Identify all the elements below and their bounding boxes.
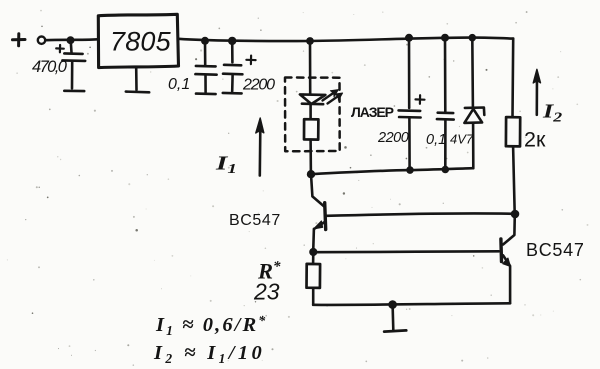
capacitor C1 470,0 xyxy=(56,40,85,91)
svg-text:0,1: 0,1 xyxy=(168,76,190,93)
regulator U1 7805 box xyxy=(98,14,178,67)
resistor R2 2k lead from rail xyxy=(511,39,514,117)
junction dot node B xyxy=(511,210,520,219)
svg-text:23: 23 xyxy=(253,279,280,305)
current arrow I2 xyxy=(533,69,540,115)
junction dot C1 xyxy=(67,36,75,44)
wire Q1 base to node B xyxy=(327,213,514,215)
junction dot C5 xyxy=(441,34,449,42)
junction dot ground xyxy=(388,300,397,309)
capacitor C5 0,1 xyxy=(437,38,454,170)
transistor Q1 BC547 collector lead xyxy=(311,174,324,206)
junction dot D2 xyxy=(469,34,477,42)
resistor R2 2k body xyxy=(506,117,520,146)
svg-text:2к: 2к xyxy=(524,128,546,152)
wire input to regulator xyxy=(46,38,98,42)
svg-text:2200: 2200 xyxy=(377,130,409,146)
svg-text:0,1: 0,1 xyxy=(426,132,446,148)
ground pin of U1 xyxy=(135,68,138,90)
junction dot C4 xyxy=(405,34,413,42)
node + input terminal plus sign xyxy=(13,34,26,46)
current arrow I1 xyxy=(256,118,264,176)
svg-text:2200: 2200 xyxy=(242,77,275,94)
junction dot C3 xyxy=(228,37,236,45)
transistor Q1 emitter with arrow xyxy=(315,222,325,228)
svg-text:7805: 7805 xyxy=(110,27,172,57)
laser diode D1 xyxy=(300,90,343,120)
transistor Q2 collector lead xyxy=(503,214,515,245)
transistor Q2 emitter with arrow xyxy=(503,255,510,265)
terminal circle xyxy=(38,37,45,44)
resistor R1 body R* xyxy=(312,252,315,264)
junction dot laser branch xyxy=(306,37,314,45)
wire main +5V rail xyxy=(179,38,514,42)
junction dot C5 bottom xyxy=(442,166,450,174)
transistor Q1 base bar xyxy=(325,203,326,230)
wire bottom rail xyxy=(313,303,510,305)
junction dot C4 bottom xyxy=(406,166,414,174)
laser module dashed box xyxy=(285,78,340,152)
svg-text:BC547: BC547 xyxy=(229,212,281,229)
wire rail to laser xyxy=(309,41,312,94)
resistor R2 lead to node xyxy=(513,147,515,214)
wire mid rail (laser cathode bus) xyxy=(311,168,473,174)
wire laser module to node xyxy=(309,140,312,174)
capacitor C2 0,1 xyxy=(195,41,216,94)
svg-text:4V7: 4V7 xyxy=(450,132,474,147)
svg-text:ЛАЗЕР: ЛАЗЕР xyxy=(351,104,394,120)
junction dot Q1 emitter node xyxy=(309,248,317,256)
svg-text:BC547: BC547 xyxy=(526,240,585,260)
ground xyxy=(391,305,394,330)
capacitor C4 2200 xyxy=(399,38,425,170)
zener diode D2 4V7 xyxy=(464,38,484,169)
capacitor C3 2200 xyxy=(223,41,256,93)
junction dot C2 xyxy=(201,37,209,45)
transistor Q2 base bar xyxy=(499,239,503,262)
junction dot laser bottom xyxy=(307,170,315,178)
svg-text:470,0: 470,0 xyxy=(32,58,68,76)
monitor photodiode box xyxy=(304,119,318,139)
wire Q1 emitter to Q2 base xyxy=(314,250,499,254)
